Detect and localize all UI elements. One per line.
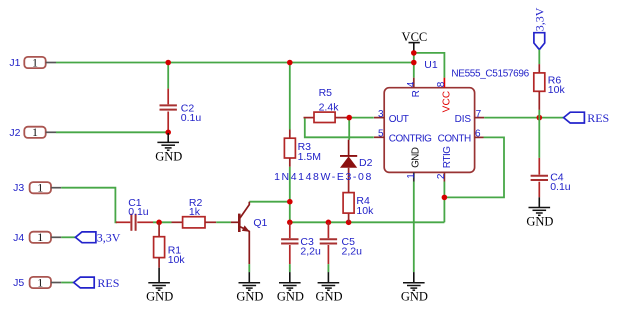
svg-text:NE555_C5157696: NE555_C5157696 — [451, 68, 529, 79]
svg-text:R: R — [411, 90, 422, 97]
svg-text:GND: GND — [277, 289, 304, 303]
wire flag to R6 — [538, 50, 540, 65]
diode D2 — [274, 140, 373, 183]
junction J1/C2 — [165, 60, 171, 66]
svg-text:10k: 10k — [168, 254, 186, 266]
capacitor C2 — [160, 89, 202, 133]
wire R3 bottom to C3 node — [289, 167, 291, 223]
resistor R3 — [284, 130, 321, 167]
pin 2 stub — [443, 172, 445, 181]
junction top rail / R3 — [287, 60, 293, 66]
svg-text:1N4148W-E3-08: 1N4148W-E3-08 — [274, 171, 373, 183]
svg-text:4: 4 — [406, 81, 417, 87]
junction OUT/R5/D2 — [346, 115, 352, 121]
ground below pin1 — [401, 272, 428, 303]
svg-text:VCC: VCC — [441, 91, 452, 113]
svg-text:1: 1 — [37, 230, 43, 244]
svg-text:CONTH: CONTH — [438, 133, 471, 144]
connector J3 — [13, 181, 61, 195]
svg-text:DIS: DIS — [455, 114, 472, 125]
svg-text:0.1u: 0.1u — [181, 112, 202, 124]
resistor R6 — [534, 64, 566, 110]
svg-text:J1: J1 — [9, 57, 20, 69]
svg-text:3,3V: 3,3V — [97, 231, 121, 245]
junction bottom rail / R3 column / C3 — [287, 220, 293, 226]
svg-text:10k: 10k — [548, 84, 566, 96]
svg-text:R5: R5 — [319, 87, 333, 99]
svg-text:GND: GND — [236, 289, 263, 303]
svg-text:1: 1 — [32, 55, 38, 69]
capacitor C3 — [281, 222, 321, 264]
svg-text:RES: RES — [587, 111, 609, 125]
wire C5 to ground — [327, 264, 329, 272]
wire bottom node rail — [290, 221, 445, 223]
wire R2 to Q1 base — [216, 221, 231, 223]
connector J5 — [13, 275, 61, 289]
wire pin2 down to bottom rail — [443, 182, 445, 223]
wire J2 to C2 — [56, 131, 168, 133]
wire R3 column from top rail — [289, 63, 291, 130]
wire pin1 to ground — [413, 182, 415, 273]
wire pin7 DIS to RES flag — [484, 117, 563, 119]
resistor R2 — [172, 197, 217, 228]
svg-text:7: 7 — [476, 109, 482, 120]
svg-text:RES: RES — [97, 276, 119, 290]
resistor R5 — [304, 87, 350, 123]
wire C3 to ground — [289, 264, 291, 272]
junction VCC stem — [411, 50, 417, 56]
svg-text:8: 8 — [436, 81, 447, 87]
svg-text:2,2u: 2,2u — [342, 245, 363, 257]
ground below R1 — [146, 268, 173, 304]
wire VCC node verticals — [413, 53, 415, 78]
ground below C5 — [315, 272, 342, 303]
svg-text:1.5M: 1.5M — [298, 151, 321, 163]
ground below Q1 — [236, 272, 263, 303]
svg-text:6: 6 — [475, 129, 481, 140]
ground below C3 — [277, 272, 304, 303]
wire OUT node down to D2 — [348, 118, 350, 140]
svg-text:GND: GND — [315, 289, 342, 303]
junction collector node — [287, 199, 293, 205]
transistor Q1 — [231, 202, 268, 264]
capacitor C5 — [320, 222, 362, 264]
op-amp/timer IC U1 body — [384, 59, 529, 172]
wire J5 to net flag — [61, 282, 73, 284]
svg-text:GND: GND — [146, 289, 173, 303]
svg-text:0.1u: 0.1u — [550, 181, 571, 193]
junction DIS / R6 / C4 — [537, 115, 543, 121]
wire R6 to DIS node — [538, 110, 540, 118]
svg-text:1: 1 — [406, 173, 417, 179]
junction pin2 / pin6 detour — [442, 195, 448, 201]
capacitor C1 — [116, 197, 153, 231]
svg-text:1: 1 — [37, 275, 43, 289]
pin 4 stub — [413, 78, 415, 88]
junction bottom rail / C5 — [326, 220, 332, 226]
pin 1 stub — [413, 172, 415, 181]
svg-text:3,3V: 3,3V — [533, 7, 547, 31]
wire VCC to pin8 — [414, 53, 445, 78]
pin 7 stub — [475, 117, 485, 119]
resistor R1 — [154, 222, 186, 267]
pin 3 stub — [374, 117, 384, 119]
svg-text:J5: J5 — [13, 277, 24, 289]
junction C2/J2/GND — [165, 130, 171, 136]
svg-text:GND: GND — [526, 214, 553, 228]
ground below C2 — [155, 133, 182, 164]
svg-text:0.1u: 0.1u — [128, 206, 149, 218]
pin 6 stub — [475, 136, 484, 138]
wire J3 to C1 — [61, 188, 117, 223]
wire J4 to supply flag — [61, 236, 75, 238]
svg-text:U1: U1 — [424, 59, 438, 71]
supply flag 3,3V at J4 — [75, 231, 120, 245]
svg-text:GND: GND — [401, 289, 428, 303]
wire R5 loop to pin5 — [305, 119, 374, 138]
capacitor C4 — [531, 158, 571, 197]
junction top rail / pin4 — [411, 60, 417, 66]
connector J1 — [9, 55, 56, 69]
ground below C4 — [526, 197, 553, 228]
supply flag 3,3V top right (rotated) — [533, 7, 547, 49]
svg-text:RTIG: RTIG — [442, 146, 453, 168]
net flag RES at J5 — [74, 276, 120, 290]
connector J4 — [13, 230, 61, 244]
svg-text:5: 5 — [378, 129, 384, 140]
wire C2 top — [167, 63, 169, 89]
svg-text:J3: J3 — [13, 182, 24, 194]
wire J1 net top rail — [56, 62, 414, 64]
svg-text:J2: J2 — [9, 127, 20, 139]
svg-text:GND: GND — [155, 150, 182, 164]
svg-text:GND: GND — [411, 147, 422, 168]
svg-text:VCC: VCC — [402, 30, 428, 44]
wire pin6 detour — [444, 137, 504, 197]
wire DIS node down to C4 — [538, 118, 540, 158]
wire Q1 emitter to ground — [248, 264, 250, 272]
pin 8 stub — [443, 78, 445, 88]
svg-text:Q1: Q1 — [253, 217, 267, 229]
svg-text:CONTRIG: CONTRIG — [389, 133, 432, 144]
wire Q1 collector to R3 column — [249, 201, 289, 203]
connector J2 — [9, 125, 56, 139]
svg-text:D2: D2 — [359, 157, 373, 169]
wire C1 to node — [153, 221, 172, 223]
pin 5 stub — [374, 136, 384, 138]
svg-text:OUT: OUT — [389, 114, 409, 125]
resistor R4 — [343, 168, 374, 223]
net flag RES right — [564, 111, 610, 125]
svg-text:J4: J4 — [13, 232, 24, 244]
wire OUT node to pin3 — [349, 117, 374, 119]
svg-text:3: 3 — [378, 109, 384, 120]
svg-text:1k: 1k — [189, 206, 201, 218]
VCC supply symbol — [402, 30, 428, 53]
svg-text:1: 1 — [32, 125, 38, 139]
svg-text:2: 2 — [436, 173, 447, 179]
junction C1/R1/R2 — [156, 220, 162, 226]
svg-text:10k: 10k — [356, 205, 374, 217]
junction bottom rail / R4 — [346, 220, 352, 226]
svg-text:2,2u: 2,2u — [300, 245, 321, 257]
svg-text:2.4k: 2.4k — [319, 101, 340, 113]
svg-text:1: 1 — [37, 181, 43, 195]
